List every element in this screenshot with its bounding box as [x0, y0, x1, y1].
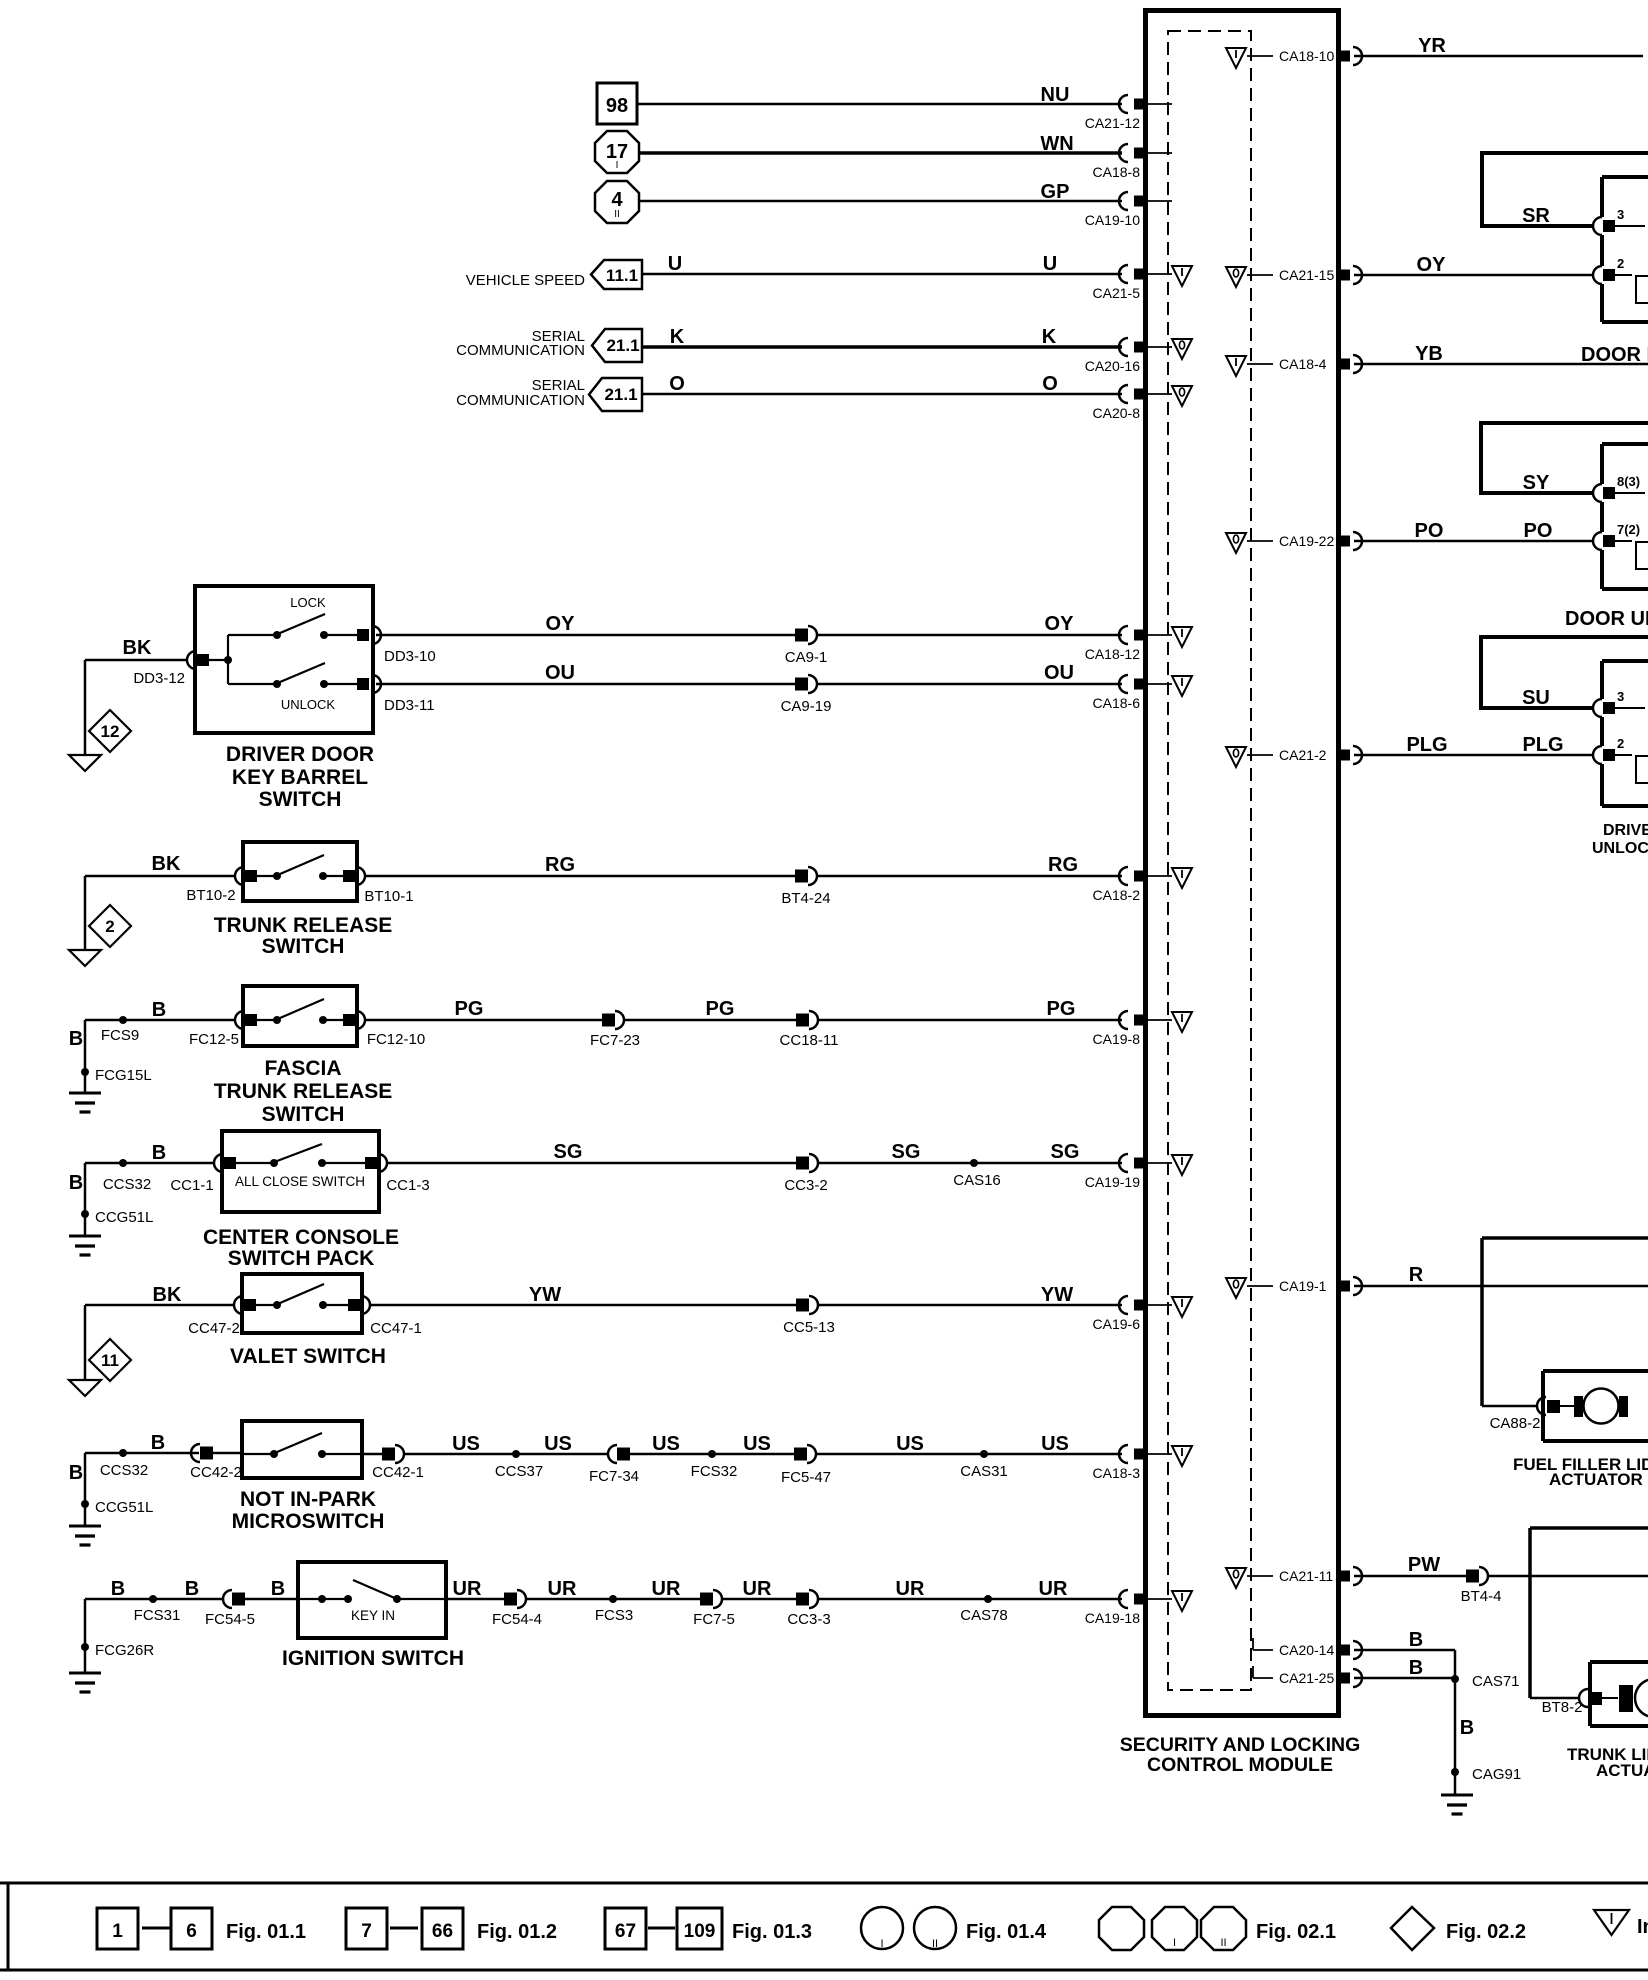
- legend range square 67: [605, 1908, 646, 1949]
- svg-text:Fig. 01.1: Fig. 01.1: [226, 1921, 306, 1943]
- wire O from arrow 21.1 to CA20-8: [642, 373, 1122, 395]
- legend range square 1: [97, 1908, 138, 1949]
- svg-text:YR: YR: [1418, 35, 1446, 57]
- svg-text:VALET SWITCH: VALET SWITCH: [230, 1345, 386, 1368]
- connector pin DD3-10: [357, 626, 436, 665]
- output triangle symbol at pin CA21-11: [1226, 1568, 1246, 1588]
- legend range square 6: [171, 1908, 212, 1949]
- svg-text:BT10-2: BT10-2: [186, 887, 235, 904]
- connector BT4-24: [781, 867, 830, 907]
- legend dash 7-66: [390, 1927, 418, 1930]
- svg-text:O: O: [669, 373, 685, 395]
- svg-text:DD3-12: DD3-12: [133, 670, 185, 687]
- junction FCS32: [691, 1450, 738, 1480]
- wire PG from FC12-10 to FC7-23: [365, 998, 602, 1020]
- svg-text:UR: UR: [652, 1578, 681, 1600]
- svg-text:CCS37: CCS37: [495, 1463, 543, 1480]
- connector pin CA18-10 on module right edge: [1247, 47, 1362, 65]
- svg-text:DD3-11: DD3-11: [384, 697, 435, 714]
- output triangle symbol at pin CA19-1: [1226, 1278, 1246, 1298]
- connector pin CC1-3: [365, 1154, 430, 1194]
- input triangle symbol at pin CA18-6: [1172, 676, 1192, 696]
- svg-text:CCS32: CCS32: [103, 1176, 151, 1193]
- label trunk release switch: [214, 914, 393, 958]
- connector pin CA88-2: [1490, 1397, 1560, 1432]
- svg-text:II: II: [614, 209, 620, 220]
- label driver unlock assembly: [1592, 822, 1648, 857]
- svg-text:CA19-19: CA19-19: [1085, 1174, 1140, 1190]
- junction CAG91: [1451, 1766, 1521, 1783]
- svg-text:CA19-1: CA19-1: [1279, 1278, 1327, 1294]
- svg-text:UR: UR: [1039, 1578, 1068, 1600]
- connector pin CA19-18 on module left edge: [1085, 1590, 1172, 1626]
- module U1 security and locking control module box: [1146, 11, 1339, 1716]
- connector pin CA20-8 on module left edge: [1093, 385, 1172, 421]
- legend label Fig. 01.2: [477, 1921, 557, 1943]
- svg-text:11.1: 11.1: [606, 266, 638, 285]
- svg-text:Fig. 02.1: Fig. 02.1: [1256, 1921, 1336, 1943]
- svg-text:DRIVER: DRIVER: [1603, 822, 1648, 839]
- svg-text:US: US: [652, 1433, 680, 1455]
- wire OU from DD3-11 to CA9-19: [376, 662, 795, 684]
- wire UR from FC54-4 to FC7-5: [526, 1578, 700, 1600]
- svg-text:CC5-13: CC5-13: [783, 1319, 835, 1336]
- svg-text:LOCK: LOCK: [290, 595, 326, 610]
- wire UR from CC3-3 to CA19-18: [818, 1578, 1122, 1600]
- ground reference diamond 2: [89, 905, 131, 947]
- svg-text:CA18-8: CA18-8: [1093, 164, 1141, 180]
- svg-text:FC7-34: FC7-34: [589, 1468, 639, 1485]
- connector pin 7(2) (door unlock assembly): [1593, 522, 1648, 569]
- svg-text:PG: PG: [706, 998, 735, 1020]
- legend bar frame: [0, 1883, 1648, 1970]
- svg-text:BT4-4: BT4-4: [1461, 1588, 1502, 1605]
- svg-text:SG: SG: [554, 1141, 583, 1163]
- svg-text:DRIVER DOOR: DRIVER DOOR: [226, 743, 374, 766]
- driver unlock assembly outer box: [1481, 637, 1648, 709]
- svg-text:BK: BK: [153, 1284, 182, 1306]
- wire OY from CA9-1 to CA18-12: [817, 613, 1122, 635]
- connector CC5-13: [783, 1296, 835, 1336]
- svg-text:KEY BARREL: KEY BARREL: [232, 766, 368, 789]
- svg-text:YW: YW: [529, 1284, 561, 1306]
- ground arrow (driver door key barrel switch): [69, 755, 101, 771]
- door unlock assembly inner box: [1602, 444, 1648, 589]
- svg-text:CA21-25: CA21-25: [1279, 1670, 1334, 1686]
- svg-text:KEY IN: KEY IN: [351, 1608, 395, 1623]
- svg-text:Fig. 02.2: Fig. 02.2: [1446, 1921, 1526, 1943]
- wire PW from CA21-11 to BT4-4: [1354, 1554, 1466, 1576]
- connector BT4-4: [1461, 1567, 1502, 1605]
- svg-text:8(3): 8(3): [1617, 474, 1640, 489]
- svg-text:BT8-2: BT8-2: [1542, 1699, 1583, 1716]
- svg-text:CA20-16: CA20-16: [1085, 358, 1140, 374]
- wire US from FC7-34 to FC5-47: [630, 1433, 794, 1455]
- connector pin CA21-12 on module left edge: [1085, 95, 1172, 131]
- dashed internal boundary of control module: [1168, 31, 1251, 1690]
- junction FCG15L: [81, 1067, 152, 1084]
- svg-text:UR: UR: [743, 1578, 772, 1600]
- door unlock assembly outer box: [1481, 423, 1648, 494]
- svg-text:COMMUNICATION: COMMUNICATION: [456, 392, 585, 409]
- svg-text:US: US: [452, 1433, 480, 1455]
- connector pin BT8-2: [1542, 1689, 1602, 1716]
- svg-text:CC1-1: CC1-1: [170, 1177, 213, 1194]
- junction CAS71: [1451, 1673, 1520, 1690]
- wire OY from CA21-15 to door lock pin 2: [1354, 254, 1592, 276]
- input triangle symbol at pin CA19-18: [1172, 1591, 1192, 1611]
- wire U from arrow 11.1 to CA21-5: [642, 253, 1122, 275]
- svg-text:CC18-11: CC18-11: [780, 1032, 839, 1049]
- input triangle symbol at pin CA19-8: [1172, 1012, 1192, 1032]
- svg-text:B: B: [152, 1142, 166, 1164]
- svg-text:PG: PG: [1047, 998, 1076, 1020]
- svg-text:FC7-23: FC7-23: [590, 1032, 640, 1049]
- input triangle symbol at pin CA18-2: [1172, 868, 1192, 888]
- wire B from CA21-25 to CAS71: [1354, 1657, 1455, 1679]
- ground arrow (valet switch): [69, 1380, 101, 1396]
- trunk actuator motor box: [1590, 1662, 1648, 1726]
- svg-text:66: 66: [432, 1921, 453, 1942]
- connector pin CA19-19 on module left edge: [1085, 1154, 1172, 1190]
- door lock assembly inner box: [1602, 177, 1648, 322]
- figure-reference octagon 17 (I): [595, 131, 639, 173]
- wire B from ground CCG51L to CC42-2: [69, 1432, 199, 1526]
- svg-text:US: US: [1041, 1433, 1069, 1455]
- svg-text:PG: PG: [455, 998, 484, 1020]
- connector pin CA18-6 on module left edge: [1093, 675, 1172, 711]
- svg-text:B: B: [152, 999, 166, 1021]
- svg-text:PLG: PLG: [1522, 734, 1563, 756]
- switch S5 valet switch: [242, 1274, 362, 1333]
- svg-text:K: K: [1042, 326, 1057, 348]
- connector pin DD3-12: [133, 651, 209, 687]
- wire BK from ground 12 to DD3-12: [85, 637, 187, 755]
- connector CC3-2: [784, 1154, 827, 1194]
- svg-text:COMMUNICATION: COMMUNICATION: [456, 342, 585, 359]
- svg-text:CC1-3: CC1-3: [386, 1177, 429, 1194]
- svg-text:US: US: [896, 1433, 924, 1455]
- svg-text:CAS78: CAS78: [960, 1607, 1008, 1624]
- svg-text:PW: PW: [1408, 1554, 1440, 1576]
- fuel filler actuator motor box: [1543, 1371, 1648, 1441]
- svg-text:CC47-2: CC47-2: [188, 1320, 240, 1337]
- wire PW from BT4-4 to trunk actuator: [1488, 1575, 1648, 1578]
- svg-text:SWITCH PACK: SWITCH PACK: [228, 1247, 375, 1270]
- svg-text:7(2): 7(2): [1617, 522, 1640, 537]
- svg-text:DOOR UN: DOOR UN: [1565, 608, 1648, 630]
- svg-text:FCS9: FCS9: [101, 1027, 139, 1044]
- ground reference diamond 11: [89, 1339, 131, 1381]
- legend label Fig. 02.1: [1256, 1921, 1336, 1943]
- label not in-park microswitch: [232, 1488, 385, 1533]
- svg-text:SECURITY AND LOCKING: SECURITY AND LOCKING: [1120, 1734, 1361, 1756]
- svg-text:BK: BK: [123, 637, 152, 659]
- svg-text:CAS31: CAS31: [960, 1463, 1008, 1480]
- connector CA9-19: [781, 675, 832, 715]
- legend octagon II: [1201, 1907, 1246, 1950]
- connector FC5-47: [781, 1445, 831, 1486]
- connector FC54-4: [492, 1590, 542, 1628]
- junction FCG26R: [81, 1642, 154, 1659]
- junction CCS32 (not in-park): [100, 1449, 148, 1479]
- off-page arrow 21.1 SERIAL COMMUNICATION (O): [456, 377, 642, 411]
- svg-text:Fig. 01.2: Fig. 01.2: [477, 1921, 557, 1943]
- connector FC7-23: [590, 1011, 640, 1049]
- svg-text:B: B: [111, 1578, 125, 1600]
- svg-text:FC5-47: FC5-47: [781, 1469, 831, 1486]
- wire WN from octagon 17 to CA18-8: [639, 133, 1122, 155]
- svg-text:CA18-4: CA18-4: [1279, 356, 1327, 372]
- svg-text:CC42-1: CC42-1: [372, 1464, 424, 1481]
- legend range square 66: [422, 1908, 463, 1949]
- wire B from CAS71 to CAG91 ground: [1455, 1679, 1474, 1795]
- svg-text:SR: SR: [1522, 205, 1550, 227]
- motor M1 fuel filler actuator: [1560, 1389, 1628, 1424]
- svg-text:CAG91: CAG91: [1472, 1766, 1521, 1783]
- connector pin CA19-8 on module left edge: [1093, 1011, 1172, 1047]
- ground reference diamond 12: [89, 710, 131, 752]
- off-page arrow 21.1 SERIAL COMMUNICATION (K): [456, 328, 642, 362]
- label ignition switch: [282, 1647, 464, 1670]
- svg-text:CA21-11: CA21-11: [1279, 1568, 1333, 1584]
- svg-text:98: 98: [606, 95, 628, 117]
- connector CC3-3: [787, 1590, 830, 1628]
- switch S7 ignition switch (key in): [298, 1562, 446, 1638]
- svg-text:B: B: [69, 1462, 83, 1484]
- wire NU from box 98 to CA21-12: [637, 84, 1122, 106]
- svg-text:2: 2: [105, 917, 114, 936]
- wire PG from FC7-23 to CC18-11: [624, 998, 796, 1020]
- svg-text:DOOR LOCK: DOOR LOCK: [1581, 344, 1648, 366]
- wire SG from CC1-3 to CC3-2: [387, 1141, 796, 1163]
- svg-text:B: B: [1409, 1629, 1423, 1651]
- door lock assembly outer box: [1482, 153, 1648, 227]
- svg-text:PO: PO: [1524, 520, 1553, 542]
- svg-text:I: I: [1173, 1937, 1176, 1949]
- connector pin 2 (driver unlock assembly): [1593, 736, 1648, 783]
- label center console switch pack: [203, 1226, 399, 1270]
- svg-text:CONTROL MODULE: CONTROL MODULE: [1147, 1754, 1333, 1776]
- svg-text:3: 3: [1617, 207, 1624, 222]
- wire YB from CA18-4 to figure edge: [1354, 343, 1648, 365]
- svg-text:CA18-10: CA18-10: [1279, 48, 1334, 64]
- svg-text:US: US: [743, 1433, 771, 1455]
- connector pin 2 (door lock assembly): [1593, 256, 1648, 303]
- svg-text:CA9-19: CA9-19: [781, 698, 832, 715]
- legend dash 67-109: [648, 1927, 675, 1930]
- junction FCS3: [595, 1595, 633, 1624]
- svg-text:21.1: 21.1: [606, 336, 639, 355]
- label trunk actuator: [1567, 1745, 1648, 1780]
- svg-text:CAS16: CAS16: [953, 1172, 1001, 1189]
- switch S2 trunk release switch: [243, 842, 357, 901]
- svg-text:FC54-5: FC54-5: [205, 1611, 255, 1628]
- svg-text:TRUNK RELEASE: TRUNK RELEASE: [214, 1080, 393, 1103]
- svg-text:CCS32: CCS32: [100, 1462, 148, 1479]
- junction CAS78: [960, 1595, 1008, 1624]
- legend range square 7: [346, 1908, 387, 1949]
- svg-text:SWITCH: SWITCH: [262, 935, 345, 958]
- label fascia trunk release switch: [214, 1057, 393, 1126]
- svg-text:OY: OY: [1417, 254, 1447, 276]
- wire BK from ground 11 to CC47-2: [85, 1284, 234, 1380]
- svg-text:II: II: [1220, 1937, 1226, 1949]
- svg-text:CA18-3: CA18-3: [1093, 1465, 1141, 1481]
- trunk actuator feed box: [1530, 1528, 1648, 1698]
- figure-reference octagon 4 (II): [595, 181, 639, 223]
- output triangle symbol at pin CA21-2: [1226, 747, 1246, 767]
- connector pin CA21-2 on module right edge: [1247, 746, 1362, 764]
- ground CCG51L (center console switch pack): [69, 1236, 101, 1255]
- input triangle symbol at pin CA19-19: [1172, 1155, 1192, 1175]
- wire B from ground CCG51L to CC1-1: [69, 1142, 214, 1236]
- legend dash 1-6: [142, 1927, 170, 1930]
- svg-text:2: 2: [1617, 736, 1624, 751]
- svg-text:CA19-6: CA19-6: [1093, 1316, 1141, 1332]
- svg-text:PO: PO: [1415, 520, 1444, 542]
- svg-text:O: O: [1042, 373, 1058, 395]
- svg-text:6: 6: [186, 1921, 197, 1942]
- legend circle I: [861, 1907, 903, 1950]
- connector pin CA20-14 on module right edge: [1253, 1638, 1362, 1659]
- svg-text:CENTER CONSOLE: CENTER CONSOLE: [203, 1226, 399, 1249]
- input triangle symbol at pin CA20-16: [1172, 339, 1192, 359]
- svg-text:NOT IN-PARK: NOT IN-PARK: [240, 1488, 376, 1511]
- svg-text:1: 1: [112, 1921, 123, 1942]
- legend octagon I: [1152, 1907, 1197, 1950]
- svg-text:OY: OY: [1045, 613, 1075, 635]
- svg-text:UR: UR: [548, 1578, 577, 1600]
- wire BK from ground 2 to BT10-2: [85, 853, 235, 950]
- driver unlock assembly inner box: [1602, 661, 1648, 806]
- connector FC7-34: [589, 1445, 639, 1485]
- svg-text:RG: RG: [545, 854, 575, 876]
- svg-text:UR: UR: [453, 1578, 482, 1600]
- svg-text:TRUNK RELEASE: TRUNK RELEASE: [214, 914, 393, 937]
- svg-text:CA19-8: CA19-8: [1093, 1031, 1141, 1047]
- off-page arrow 11.1 VEHICLE SPEED: [466, 260, 642, 289]
- svg-text:OY: OY: [546, 613, 576, 635]
- svg-text:FC12-10: FC12-10: [367, 1031, 425, 1048]
- connector pin CA20-16 on module left edge: [1085, 338, 1172, 374]
- svg-text:12: 12: [101, 722, 120, 741]
- svg-text:GP: GP: [1041, 181, 1070, 203]
- svg-text:DD3-10: DD3-10: [384, 648, 436, 665]
- connector pin CA18-3 on module left edge: [1093, 1445, 1172, 1481]
- svg-text:ACTUATOR: ACTUATOR: [1549, 1470, 1643, 1489]
- legend label Fig. 01.1: [226, 1921, 306, 1943]
- svg-text:3: 3: [1617, 689, 1624, 704]
- switch S3 fascia trunk release switch: [243, 986, 357, 1046]
- label valet switch: [230, 1345, 386, 1368]
- svg-text:FASCIA: FASCIA: [264, 1057, 341, 1080]
- module name label: [1120, 1734, 1361, 1776]
- svg-text:U: U: [668, 253, 682, 275]
- svg-text:CA21-12: CA21-12: [1085, 115, 1140, 131]
- svg-text:CA20-14: CA20-14: [1279, 1642, 1334, 1658]
- svg-text:FCS3: FCS3: [595, 1607, 633, 1624]
- connector FC7-5: [693, 1590, 735, 1628]
- svg-text:WN: WN: [1040, 133, 1073, 155]
- svg-text:I: I: [616, 160, 619, 171]
- legend label Fig. 02.2: [1446, 1921, 1526, 1943]
- wire US from FC5-47 to CA18-3: [816, 1433, 1122, 1455]
- wire B from FC54-5 into ignition switch box: [245, 1578, 298, 1600]
- fuel filler actuator feed box: [1482, 1238, 1648, 1406]
- wire PLG from CA21-2 to driver unlock pin 2: [1354, 734, 1592, 756]
- svg-text:67: 67: [615, 1921, 636, 1942]
- svg-text:7: 7: [361, 1921, 372, 1942]
- svg-text:FC12-5: FC12-5: [189, 1031, 239, 1048]
- svg-text:FCS32: FCS32: [691, 1463, 738, 1480]
- connector pin CA21-15 on module right edge: [1247, 266, 1362, 284]
- svg-text:IGNITION SWITCH: IGNITION SWITCH: [282, 1647, 464, 1670]
- svg-text:4: 4: [611, 189, 623, 211]
- connector pin 8(3) (door unlock assembly): [1593, 474, 1645, 502]
- connector pin FC12-5: [189, 1011, 257, 1048]
- ground FCG15L (fascia trunk release switch): [69, 1093, 101, 1112]
- junction CCS32 (center console): [103, 1159, 151, 1193]
- output triangle symbol at pin CA18-10: [1226, 48, 1246, 68]
- wire B from CA20-14 to CAS71: [1354, 1629, 1455, 1679]
- svg-text:CA19-10: CA19-10: [1085, 212, 1140, 228]
- svg-text:BK: BK: [152, 853, 181, 875]
- svg-text:SG: SG: [892, 1141, 921, 1163]
- svg-text:YB: YB: [1415, 343, 1443, 365]
- junction FCS9: [101, 1016, 139, 1044]
- svg-text:2: 2: [1617, 256, 1624, 271]
- connector pin CA21-25 on module right edge: [1253, 1666, 1362, 1687]
- svg-text:B: B: [271, 1578, 285, 1600]
- svg-text:YW: YW: [1041, 1284, 1073, 1306]
- wire K from arrow 21.1 to CA20-16: [642, 326, 1122, 348]
- svg-text:BT10-1: BT10-1: [364, 888, 413, 905]
- svg-text:MICROSWITCH: MICROSWITCH: [232, 1510, 385, 1533]
- svg-text:UNLOCK: UNLOCK: [281, 697, 336, 712]
- svg-text:In: In: [1637, 1916, 1648, 1938]
- connector CC18-11: [780, 1011, 839, 1049]
- svg-text:CA19-18: CA19-18: [1085, 1610, 1140, 1626]
- svg-text:FC7-5: FC7-5: [693, 1611, 735, 1628]
- svg-text:11: 11: [101, 1351, 119, 1370]
- connector pin FC12-10: [343, 1011, 425, 1048]
- input triangle symbol at pin CA21-5: [1172, 266, 1192, 286]
- svg-text:SWITCH: SWITCH: [259, 788, 342, 811]
- junction CCS37: [495, 1450, 543, 1480]
- connector CA9-1: [785, 626, 828, 666]
- legend label Fig. 01.3: [732, 1921, 812, 1943]
- svg-text:NU: NU: [1041, 84, 1070, 106]
- svg-text:Fig. 01.4: Fig. 01.4: [966, 1921, 1047, 1943]
- connector pin 3 (door lock assembly): [1593, 207, 1645, 235]
- connector pin CA19-6 on module left edge: [1093, 1296, 1172, 1332]
- svg-text:SG: SG: [1051, 1141, 1080, 1163]
- svg-text:BT4-24: BT4-24: [781, 890, 830, 907]
- wire GP from octagon 4 to CA19-10: [639, 181, 1122, 203]
- wire US from CC42-1 to FC7-34: [404, 1433, 608, 1455]
- label door unlock assembly: [1565, 608, 1648, 630]
- legend diamond: [1391, 1907, 1434, 1950]
- svg-text:CA21-15: CA21-15: [1279, 267, 1334, 283]
- svg-text:CC3-3: CC3-3: [787, 1611, 830, 1628]
- svg-text:UR: UR: [896, 1578, 925, 1600]
- svg-text:SWITCH: SWITCH: [262, 1103, 345, 1126]
- svg-text:FCS31: FCS31: [134, 1607, 181, 1624]
- output triangle symbol at pin CA21-15: [1226, 267, 1246, 287]
- connector pin CA19-1 on module right edge: [1247, 1277, 1362, 1295]
- output triangle symbol at pin CA18-4: [1226, 356, 1246, 376]
